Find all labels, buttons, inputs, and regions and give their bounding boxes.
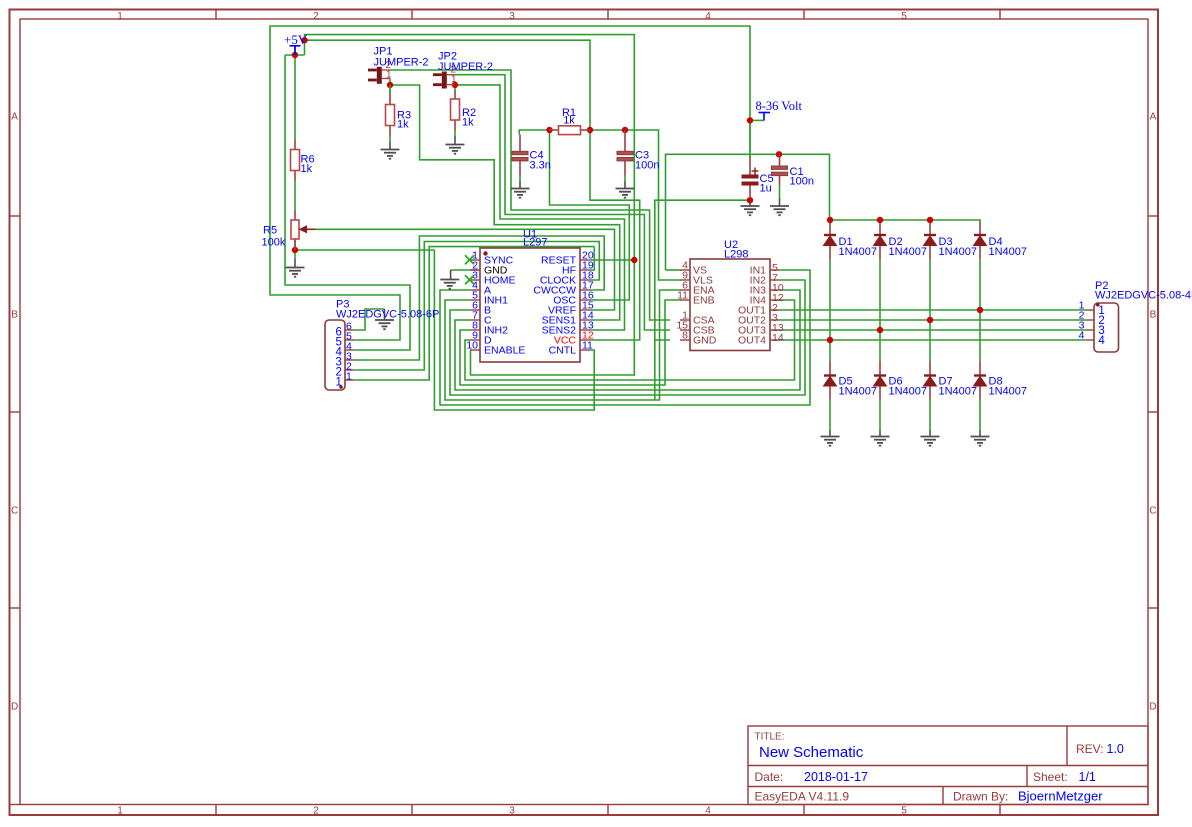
wire U1 GND stem xyxy=(450,270,452,280)
diode D2 bottom pin xyxy=(879,246,881,260)
wire 8-36V flag stub xyxy=(750,119,764,121)
jumper JP1 body xyxy=(368,67,382,84)
wire RESET pin to junction xyxy=(590,259,634,261)
connector P2 body xyxy=(1094,303,1119,352)
U1 pin1 dot xyxy=(483,251,487,255)
ground U1 GND xyxy=(440,280,459,289)
wire C3 bottom xyxy=(624,176,626,182)
svg-text:11: 11 xyxy=(582,340,593,352)
wire 8-36V top loop to P3 pin5 xyxy=(270,26,750,340)
ground D7 xyxy=(921,437,940,446)
junction +5V rail T xyxy=(301,37,307,43)
resistor R5 (pot) xyxy=(291,220,299,239)
svg-text:1: 1 xyxy=(117,11,123,22)
wire JP1 pin1 to R3 xyxy=(389,79,391,96)
svg-text:11: 11 xyxy=(677,290,688,302)
svg-text:R5: R5 xyxy=(263,225,277,237)
wire P3 pin6 to ground xyxy=(354,309,385,330)
svg-text:1N4007: 1N4007 xyxy=(839,246,878,258)
svg-text:100n: 100n xyxy=(635,160,659,172)
wire OUT2 to P2 pin2 xyxy=(780,319,1086,321)
wire OUT1 to P2 pin1 xyxy=(780,309,1086,311)
ground R3 xyxy=(381,150,400,159)
svg-text:B: B xyxy=(1150,310,1157,321)
wire CNTL loop xyxy=(434,250,594,410)
svg-text:CNTL: CNTL xyxy=(549,345,577,357)
wire D3 cathode to OUT row xyxy=(929,260,931,321)
svg-text:4: 4 xyxy=(1079,329,1085,341)
resistor R3 leads xyxy=(389,94,391,105)
svg-text:JUMPER-2: JUMPER-2 xyxy=(438,61,493,73)
capacitor C3 xyxy=(617,151,633,161)
svg-text:A: A xyxy=(1150,112,1157,123)
ground D8 xyxy=(971,437,990,446)
jumper JP2 arms xyxy=(447,74,455,76)
junction RESET node xyxy=(631,257,637,263)
wire C5 top lead from 8-36V dot xyxy=(749,120,751,157)
jumper JP1 arms xyxy=(382,69,390,71)
junction C5 bottom node xyxy=(747,197,753,203)
svg-text:OUT4: OUT4 xyxy=(738,335,766,347)
title block box xyxy=(748,726,1148,805)
net flag +5V xyxy=(290,46,301,55)
no-connect SYNC xyxy=(465,255,474,264)
wire +5V node horizontal xyxy=(285,54,305,56)
svg-text:3: 3 xyxy=(509,806,515,817)
svg-text:BjoernMetzger: BjoernMetzger xyxy=(1018,789,1103,804)
svg-text:ENB: ENB xyxy=(693,295,715,307)
svg-text:1.0: 1.0 xyxy=(1107,742,1124,756)
svg-text:100n: 100n xyxy=(790,176,814,188)
junction C1 top node xyxy=(776,151,782,157)
jumper JP2 body xyxy=(433,72,447,89)
svg-text:GND: GND xyxy=(693,335,717,347)
junction OUT4-D1 node xyxy=(827,337,833,343)
svg-text:5: 5 xyxy=(901,806,907,817)
svg-text:Sheet:: Sheet: xyxy=(1033,770,1068,784)
wire D7 column xyxy=(929,320,931,361)
wire HF to P3 pin1 row xyxy=(590,247,594,270)
wire R5 bottom to node xyxy=(294,239,296,250)
diode D8 xyxy=(974,376,987,387)
wire D5 gnd stem xyxy=(829,431,831,437)
connector P3 body xyxy=(325,320,345,390)
diode D1 top pin xyxy=(829,222,831,236)
svg-text:Drawn By:: Drawn By: xyxy=(953,790,1008,804)
wire JP2 pin1 loop to SENS2 xyxy=(455,85,625,330)
wire C5 gnd stem xyxy=(749,200,751,206)
svg-text:1N4007: 1N4007 xyxy=(989,246,1028,258)
capacitor C1 xyxy=(772,166,788,176)
svg-text:1N4007: 1N4007 xyxy=(839,386,878,398)
capacitor C3 leads xyxy=(624,130,626,151)
junction diode bus D1 xyxy=(827,217,833,223)
wire INH1 to ENA xyxy=(445,290,681,400)
svg-text:14: 14 xyxy=(772,332,784,344)
junction JP2 pin1 node xyxy=(452,82,458,88)
wire R3 gnd stem xyxy=(389,142,391,150)
diode D3 xyxy=(924,235,937,246)
svg-text:1: 1 xyxy=(386,70,392,81)
wire U1 GND stub xyxy=(471,269,480,271)
wire D1 top lead xyxy=(829,220,831,222)
svg-text:L297: L297 xyxy=(523,237,547,249)
junction OUT1-D4 node xyxy=(977,307,983,313)
wire D1 cathode to OUT row xyxy=(829,260,831,341)
svg-text:Date:: Date: xyxy=(755,770,784,784)
svg-text:WJ2EDGVC-5.08-4P: WJ2EDGVC-5.08-4P xyxy=(1095,290,1192,302)
svg-text:1/1: 1/1 xyxy=(1079,770,1096,784)
resistor R2 xyxy=(451,99,460,120)
diode D7 leads xyxy=(929,361,931,376)
resistor R6 xyxy=(291,150,300,171)
ground P3 pin6 xyxy=(375,320,394,329)
wire VS pin stub xyxy=(666,269,682,271)
svg-text:New Schematic: New Schematic xyxy=(759,744,864,761)
wire D6 gnd stem xyxy=(879,431,881,437)
R5 wiper arrow xyxy=(300,226,316,233)
wire 8-36V bus to C1 and diode bus xyxy=(666,154,830,270)
wire D3 top lead xyxy=(929,220,931,222)
wire U1 GND to ground xyxy=(451,269,471,271)
wire OUT3 to P2 pin3 xyxy=(780,329,1086,331)
wire D5 bottom to ground xyxy=(829,400,831,431)
svg-text:1N4007: 1N4007 xyxy=(989,386,1028,398)
svg-text:B: B xyxy=(11,310,18,321)
svg-text:1: 1 xyxy=(117,806,123,817)
svg-text:1: 1 xyxy=(451,74,457,85)
svg-text:1: 1 xyxy=(346,371,352,383)
wire R3 top xyxy=(389,85,391,94)
svg-text:WJ2EDGVC-5.08-6P: WJ2EDGVC-5.08-6P xyxy=(336,309,439,321)
svg-text:D: D xyxy=(11,702,18,713)
capacitor C4 leads xyxy=(519,135,521,152)
diode D2 top pin xyxy=(879,222,881,236)
junction JP1 pin1 node xyxy=(387,82,393,88)
wire D8 column xyxy=(979,310,981,361)
junction R1 right node xyxy=(587,127,593,133)
wire +5V rail B (y=40.2) down to R1 bus xyxy=(305,40,591,130)
diode D3 top pin xyxy=(929,222,931,236)
svg-text:L298: L298 xyxy=(724,249,748,261)
svg-text:1k: 1k xyxy=(301,163,313,175)
wire OSC to R1 node xyxy=(550,130,630,300)
svg-text:4: 4 xyxy=(1098,335,1105,347)
diode D5 xyxy=(824,376,837,387)
svg-text:ENABLE: ENABLE xyxy=(484,345,525,357)
resistor R5 leads xyxy=(294,210,296,220)
wire OUT4 to P2 pin4 xyxy=(780,339,1086,341)
diode D1 xyxy=(824,235,837,246)
wire JP1 pin1 loop to SENS1 xyxy=(390,85,620,320)
wire D2 cathode to OUT row xyxy=(879,260,881,331)
C5 plus sign xyxy=(752,168,759,175)
wire C4 gnd stem xyxy=(519,181,521,189)
wire D6 column xyxy=(879,330,881,361)
wire C1 gnd stem xyxy=(779,199,781,207)
wire D to IN4 xyxy=(465,300,795,380)
svg-text:1k: 1k xyxy=(462,117,474,129)
wire +5V down to R6 xyxy=(294,55,296,140)
svg-text:1N4007: 1N4007 xyxy=(939,246,978,258)
op-amp U1 L297 body xyxy=(480,248,580,362)
wire U2 GND chain lower stub xyxy=(654,340,656,400)
svg-text:3: 3 xyxy=(509,11,515,22)
wire R2 bottom xyxy=(454,131,456,137)
capacitor C5 leads xyxy=(749,157,751,175)
svg-text:A: A xyxy=(11,112,18,123)
ground C3 xyxy=(616,189,635,198)
resistor R2 leads xyxy=(454,90,456,99)
diode D8 leads xyxy=(979,361,981,376)
wire D7 gnd stem xyxy=(929,431,931,437)
wire R5 bottom node row xyxy=(295,249,434,251)
wire D6 bottom to ground xyxy=(879,400,881,431)
resistor R1 xyxy=(559,126,581,135)
svg-text:EasyEDA V4.11.9: EasyEDA V4.11.9 xyxy=(755,790,850,804)
svg-text:2: 2 xyxy=(313,806,319,817)
wire P3 gnd stem xyxy=(384,309,386,320)
ground D6 xyxy=(871,437,890,446)
ground C5 xyxy=(741,206,760,215)
resistor R1 leads xyxy=(550,129,559,131)
wire R2 gnd stem xyxy=(454,136,456,145)
ground R2 xyxy=(446,145,465,154)
junction +5V node xyxy=(292,52,298,58)
svg-text:3.3n: 3.3n xyxy=(530,160,551,172)
capacitor C1 leads xyxy=(779,154,781,166)
diode D4 xyxy=(974,235,987,246)
diode D3 bottom pin xyxy=(929,246,931,260)
diode D6 xyxy=(874,376,887,387)
svg-text:TITLE:: TITLE: xyxy=(755,732,785,743)
wire R5 wiper to VREF xyxy=(316,229,615,310)
wire JP2 pin2 row to CSB xyxy=(455,75,670,330)
wire D2 top lead xyxy=(879,220,881,222)
svg-text:8: 8 xyxy=(682,330,688,342)
svg-text:5: 5 xyxy=(901,11,907,22)
wire D8 gnd stem xyxy=(979,431,981,437)
diode D4 bottom pin xyxy=(979,246,981,260)
wire A to IN1 xyxy=(440,270,810,405)
svg-text:C: C xyxy=(11,506,18,517)
wire CLOCK to P3 pin2 xyxy=(354,242,599,371)
capacitor C4 xyxy=(512,151,528,161)
wire P3 pin1 to HF riser xyxy=(354,247,594,380)
wire R5 gnd stem xyxy=(294,259,296,268)
svg-text:4: 4 xyxy=(705,806,711,817)
op-amp U2 L298 body xyxy=(690,259,770,351)
junction diode bus D2 xyxy=(877,217,883,223)
junction R1 left node xyxy=(546,127,552,133)
junction diode bus D3 xyxy=(927,217,933,223)
wire B to IN2 xyxy=(450,280,805,395)
diode D4 top pin xyxy=(979,222,981,236)
diode D1 bottom pin xyxy=(829,246,831,260)
junction R5 bottom node xyxy=(292,247,298,253)
resistor R3 xyxy=(386,105,395,126)
ground C4 xyxy=(511,189,530,198)
svg-text:D: D xyxy=(1149,702,1156,713)
svg-text:1N4007: 1N4007 xyxy=(889,246,928,258)
wire C4 bottom xyxy=(519,176,521,182)
wire U1 VCC pin to +5V R1 node xyxy=(590,130,640,340)
wire D5 column xyxy=(829,340,831,361)
wire C to IN3 xyxy=(455,290,800,390)
wire C1 bottom xyxy=(779,185,781,199)
no-connect HOME xyxy=(465,275,474,284)
junction C3 top node xyxy=(622,127,628,133)
P3 pin1 dot xyxy=(339,385,343,389)
svg-text:+5V: +5V xyxy=(284,32,308,47)
svg-text:REV:: REV: xyxy=(1076,742,1104,756)
svg-text:10: 10 xyxy=(466,340,478,352)
ground R5 xyxy=(286,268,305,277)
wire R3 bottom xyxy=(389,136,391,142)
wire +5V riser to rails xyxy=(304,40,306,55)
junction OUT2-D3 node xyxy=(927,317,933,323)
wire diode top bus xyxy=(830,220,981,222)
diode D6 leads xyxy=(879,361,881,376)
svg-text:JUMPER-2: JUMPER-2 xyxy=(374,57,429,69)
wire R5 node drop xyxy=(294,250,296,259)
svg-text:1k: 1k xyxy=(563,115,575,127)
wire JP1 pin2 row to CSA xyxy=(390,70,670,320)
wire C5 bottom gnd to U2 GND pin xyxy=(655,200,750,340)
wire C3 gnd stem xyxy=(624,181,626,189)
wire +5V rail A (y=34.6) to RESET and ENABLE xyxy=(305,35,635,375)
wire R1 bus left to C4 xyxy=(519,130,549,135)
wire R1 bus right to VLS xyxy=(590,130,681,280)
wire D4 cathode to OUT row xyxy=(979,260,981,311)
ground C1 xyxy=(770,206,789,215)
svg-text:1N4007: 1N4007 xyxy=(939,386,978,398)
wire CWCCW to P3 pin3 xyxy=(354,236,604,360)
wire JP2 pin1 to R2 xyxy=(454,85,456,90)
wire INH2 to ENB xyxy=(460,300,681,385)
ground D5 xyxy=(821,437,840,446)
wire R6-R5 link xyxy=(294,181,296,210)
junction OUT3-D2 node xyxy=(877,327,883,333)
svg-text:100k: 100k xyxy=(262,237,286,249)
capacitor C5 xyxy=(742,175,759,186)
diode D7 xyxy=(924,376,937,387)
net flag 8-36 Volt xyxy=(759,113,771,121)
svg-text:1N4007: 1N4007 xyxy=(889,386,928,398)
wire +5V flag stem xyxy=(294,46,296,55)
diode D5 leads xyxy=(829,361,831,376)
wire D8 bottom to ground xyxy=(979,400,981,431)
wire +5V left rail to P3 pin4 xyxy=(285,55,410,350)
svg-text:C: C xyxy=(1149,506,1156,517)
diode D2 xyxy=(874,235,887,246)
svg-text:8-36 Volt: 8-36 Volt xyxy=(756,99,803,113)
P2 pin1 dot xyxy=(1096,303,1100,307)
wire D7 bottom to ground xyxy=(929,400,931,431)
junction 8-36V node xyxy=(747,117,753,123)
svg-text:1: 1 xyxy=(336,377,342,389)
svg-text:1u: 1u xyxy=(760,183,772,195)
svg-text:1k: 1k xyxy=(397,119,409,131)
svg-text:2018-01-17: 2018-01-17 xyxy=(804,770,868,784)
svg-text:4: 4 xyxy=(705,11,711,22)
resistor R6 leads xyxy=(294,140,296,150)
svg-text:2: 2 xyxy=(313,11,319,22)
